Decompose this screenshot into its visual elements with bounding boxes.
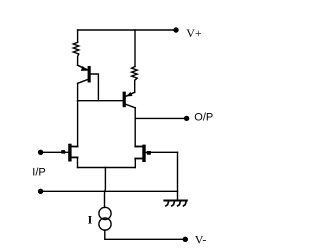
svg-text:O/P: O/P	[194, 112, 213, 124]
svg-text:I/P: I/P	[32, 166, 45, 178]
svg-text:I: I	[88, 213, 93, 227]
svg-text:V+: V+	[186, 26, 202, 40]
svg-text:V-: V-	[195, 233, 207, 247]
